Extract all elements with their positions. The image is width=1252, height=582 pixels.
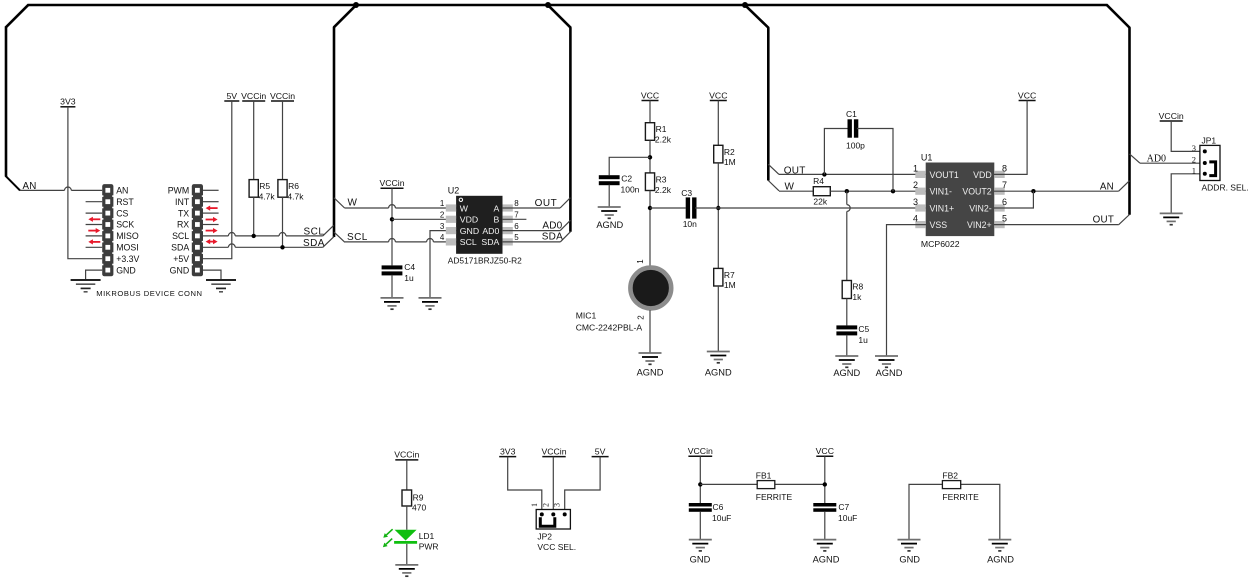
wire harness drop 2 vertical [569,28,572,232]
wire R3 to mic node [649,191,651,267]
label C4 [404,262,415,283]
power VCC (R2) [709,90,727,100]
power VCCin (FB1) [688,446,713,456]
wire R1 to node [649,140,651,173]
net label W (into AD5171) [348,198,358,209]
svg-text:VCC SEL.: VCC SEL. [537,542,576,552]
svg-text:2: 2 [637,315,646,320]
svg-text:LD1: LD1 [419,531,435,541]
U1 internal right labels [962,170,991,230]
power 5V (JP2) [592,446,609,456]
svg-text:1u: 1u [404,273,414,283]
wire VOUT2 to VIN2- [994,191,1033,208]
svg-text:MIKROBUS DEVICE CONN: MIKROBUS DEVICE CONN [96,289,202,298]
svg-text:4: 4 [913,214,918,224]
svg-text:7: 7 [1002,180,1007,190]
svg-text:RX: RX [177,220,189,230]
wire SCL net [203,232,323,235]
wire stub INT [203,201,219,203]
wire SDA diagonal to harness [323,237,334,248]
svg-text:MISO: MISO [116,231,139,241]
wire harness drop 1 diagonal [334,5,357,28]
ground C4 [381,298,404,309]
svg-text:CMC-2242PBL-A: CMC-2242PBL-A [576,323,643,333]
ground right header [206,280,236,292]
wire R4 to U1 pin2 [830,190,926,192]
arrow SCL out [206,228,218,233]
svg-text:470: 470 [412,503,426,513]
node VOUT2 junction [1031,189,1035,193]
svg-text:5V: 5V [226,91,237,101]
svg-text:C1: C1 [846,109,857,119]
wire VCCin to JP2 pin2 [552,457,554,510]
net label AD0 [1147,153,1166,164]
wire W tap diagonal (MCP) [768,181,779,191]
svg-text:1: 1 [913,163,918,173]
svg-text:VIN2+: VIN2+ [967,220,992,230]
svg-text:W: W [348,198,358,209]
svg-text:VOUT2: VOUT2 [962,187,991,197]
wire stub RST [86,201,103,203]
power 3V3 (JP2) [499,446,516,456]
ground C6 [689,540,712,551]
ground JP1 [1160,213,1183,224]
wire FB1 line [700,483,825,485]
svg-text:22k: 22k [813,196,827,206]
svg-text:CS: CS [116,208,128,218]
wire VCC to R1 [649,101,651,123]
connector mikrobus left header [102,184,114,276]
svg-text:VCC: VCC [641,90,659,100]
svg-text:C2: C2 [621,173,632,183]
resistor R1 [645,123,654,141]
svg-text:2: 2 [541,503,550,507]
wire R7 to ground [717,286,719,352]
power VCC (FB1) [816,446,834,456]
label R3 [655,174,672,195]
svg-text:100p: 100p [846,140,865,150]
wire mic node to C3 [650,207,686,209]
arrow MISO out [88,228,100,233]
svg-text:2.2k: 2.2k [655,185,672,195]
net label OUT (right) [1093,215,1115,226]
wire OUT tap diagonal (MCP) [768,164,779,174]
power 5V [224,91,239,101]
wire harness drop 3 vertical [767,28,770,181]
svg-text:1u: 1u [858,335,868,345]
wire stub MISO [86,235,103,237]
wire harness drop 1 vertical [333,27,336,237]
capacitor C5 [836,325,857,335]
svg-text:GND: GND [116,265,136,275]
svg-text:1M: 1M [724,157,736,167]
label C3 [681,188,697,229]
ferrite FB2 body [942,481,960,489]
wire stub SCK [86,224,103,226]
wire U1 VSS to ground [887,225,927,356]
svg-text:VCCin: VCCin [241,91,266,101]
svg-text:6: 6 [514,222,519,231]
svg-text:C5: C5 [858,324,869,334]
arrow RX out [206,217,218,222]
svg-text:10n: 10n [683,219,697,229]
svg-text:SDA: SDA [303,238,325,249]
label R7 [724,270,736,290]
wire FB2 left [909,484,1000,539]
label AGND (VSS) [876,368,903,378]
wire R5 to SCL [253,197,255,236]
svg-text:R7: R7 [724,270,735,280]
wire VCC down (C7) [824,456,826,503]
svg-text:VIN1-: VIN1- [930,187,953,197]
arrow TX in [206,206,218,211]
resistor R7 [714,268,723,286]
label FERRITE (FB2) [942,492,979,502]
svg-text:AGND: AGND [987,555,1014,565]
capacitor C7 [813,503,836,512]
svg-text:3V3: 3V3 [60,97,76,107]
svg-text:3: 3 [440,222,445,231]
wire U2 pin8 OUT [502,207,560,209]
label AD5171BRJZ50-R2 [448,255,522,265]
wire VDD to U2 pin2 [392,218,457,220]
svg-text:3: 3 [1192,143,1196,153]
svg-text:GND: GND [690,555,711,565]
svg-text:GND: GND [460,226,479,236]
label LD1 PWR [419,531,439,552]
label MCP6022 [921,239,960,249]
label R6 [287,181,304,201]
power VCCin (U2) [379,178,404,188]
svg-text:3V3: 3V3 [500,446,516,456]
node mic-C3 junction [648,206,652,210]
svg-text:R4: R4 [813,176,824,186]
power VCCin (R5) [241,91,266,101]
resistor R6 [278,180,287,198]
wire JP1 pin1 to ground [1171,174,1200,214]
svg-text:AD0: AD0 [542,221,562,232]
svg-text:C4: C4 [404,262,415,272]
U1 internal left labels [930,170,959,230]
svg-text:MCP6022: MCP6022 [921,239,960,249]
wire harness drop 3 diagonal [744,5,768,28]
svg-text:VCCin: VCCin [270,91,295,101]
wire stub PWM [203,189,219,191]
svg-text:2.2k: 2.2k [655,135,672,145]
svg-text:R3: R3 [656,174,667,184]
power VCCin (R6) [270,91,295,101]
net label W (MCP in) [785,182,795,193]
svg-text:AGND: AGND [596,220,623,230]
svg-text:SDA: SDA [481,237,499,247]
JP1 pin dots [1203,149,1207,175]
capacitor C1 [848,119,859,137]
label AGND (MIC1) [637,368,664,378]
wire 3V3 to +3.3V pin [68,107,102,259]
svg-text:VCCin: VCCin [379,178,404,188]
wire SCL diagonal to harness [323,225,334,236]
svg-text:AGND: AGND [637,368,664,378]
wire W net to U2 pin1 [345,205,457,208]
wire U2 GND pin to ground [430,231,457,298]
capacitor C6 [689,503,712,512]
wire LED to ground [406,544,408,565]
labels mikrobus right header pins [168,186,190,276]
wire SDA diagonal to harness (AD5171) [560,232,570,242]
wire C1 right leg [857,129,893,192]
svg-text:AGND: AGND [705,368,732,378]
capacitor C2 [599,175,620,185]
wire W tap diagonal [334,198,345,208]
wire VCCin to R5 [253,101,255,180]
node SCL-R5 junction [252,234,256,238]
svg-text:VCCin: VCCin [688,446,713,456]
svg-text:RST: RST [116,197,134,207]
net label SDA (AD5171) [542,232,563,243]
svg-text:FB2: FB2 [942,471,958,481]
label AGND (FB2) [987,555,1014,565]
wire OUT diagonal to harness (right) [1119,215,1130,225]
svg-text:C6: C6 [713,502,724,512]
wire SDA net [203,244,323,247]
svg-text:VCCin: VCCin [1159,111,1184,121]
net label AD0 (AD5171) [542,221,562,232]
wire 5V to +5V pin [202,101,232,259]
node harness junction 2 [545,2,551,8]
ground U2 [419,298,442,309]
label AGND (R7) [705,368,732,378]
wire VCCin down (FB1) [699,456,701,503]
svg-text:SCL: SCL [460,237,477,247]
svg-text:10uF: 10uF [838,513,857,523]
label FB2 [942,471,958,481]
wire VCCin to R6 [282,101,284,180]
node harness junction 1 [353,2,359,8]
label MIC1 [576,311,643,333]
svg-text:2: 2 [440,211,445,220]
op-amp U1 MCP6022 body [915,163,1004,237]
wire SCL net to U2 pin4 [345,239,457,242]
wire U2 pin6 AD0 [502,230,560,232]
svg-text:VDD: VDD [460,215,478,225]
wire VCC to R2 [717,101,719,146]
power VCCin (JP2) [541,446,566,456]
svg-text:JP2: JP2 [537,532,552,542]
svg-text:AD0: AD0 [482,226,499,236]
label U2 [448,186,460,196]
ground MIC1 [639,353,662,364]
wire C5 to ground [846,335,848,356]
svg-text:R6: R6 [288,181,299,191]
label JP1 [1202,135,1217,145]
label MIKROBUS DEVICE CONN [96,289,202,298]
svg-text:OUT: OUT [1093,215,1115,226]
label R4 [813,176,828,206]
wire VCCin to JP1 pin3 [1171,121,1200,151]
wire VCC to U1 VDD [994,101,1027,175]
svg-text:1: 1 [440,199,445,208]
svg-text:1: 1 [530,503,539,507]
svg-text:MOSI: MOSI [116,243,138,253]
power VCC (U1) [1018,90,1036,100]
wire U2 pin5 SDA [502,241,560,243]
power VCC (R1) [641,90,659,100]
label GND (FB2) [899,555,920,565]
svg-text:AN: AN [23,181,37,192]
U2 left pin numbers [440,199,445,242]
connector mikrobus right header [191,184,203,276]
wire harness left bottom diagonal [6,176,20,191]
U2 internal right labels [481,203,499,247]
wire stub MOSI [86,246,103,248]
U2 internal left labels [460,203,479,247]
wire C3 to U1 VIN1+ [695,207,926,209]
wire OUT diagonal to harness [560,198,570,208]
svg-text:+3.3V: +3.3V [116,254,139,264]
wire stub RX [203,224,219,226]
svg-text:OUT: OUT [535,198,558,209]
wire AD0 to JP1 pin2 [1140,162,1200,164]
net label OUT (MCP in) [784,165,806,176]
node C7 junction [823,482,827,486]
svg-text:10uF: 10uF [712,513,731,523]
svg-text:1k: 1k [852,292,862,302]
arrow SDA bidir [206,239,218,244]
wire stub TX [203,212,219,214]
svg-text:FERRITE: FERRITE [756,492,793,502]
net label SDA (mikrobus) [303,238,325,249]
JP1 pin numbers [1192,143,1196,176]
arrow SCK in [88,217,100,222]
wire VCCin down to C4 [391,188,393,265]
ground left header [71,280,101,292]
wire stub CS [86,212,103,214]
U2 pin1 marker [459,198,462,201]
wire 3V3 to JP2 pin1 [508,457,542,510]
label AGND (C5) [833,368,860,378]
svg-text:1M: 1M [724,280,736,290]
wire right header GND [203,270,221,280]
svg-text:2: 2 [1192,155,1196,165]
svg-text:MIC1: MIC1 [576,311,597,321]
svg-text:W: W [460,203,469,213]
svg-text:AN: AN [116,186,128,196]
svg-text:VCCin: VCCin [541,446,566,456]
U1 left pin numbers [913,163,918,223]
svg-text:7: 7 [514,211,519,220]
label C6 [712,502,731,523]
label GND (C6) [690,555,711,565]
svg-text:SDA: SDA [542,232,563,243]
svg-text:SCL: SCL [172,231,189,241]
wire harness top bus [28,4,1107,7]
label R5 [259,181,276,201]
svg-text:1: 1 [1192,166,1196,176]
svg-text:U1: U1 [921,152,933,162]
label JP2 [537,532,552,542]
svg-text:AGND: AGND [876,368,903,378]
label R2 [724,147,736,167]
label C2 [621,173,640,194]
JP2 jumper cap [540,517,555,526]
resistor R2 [714,145,723,163]
resistor R5 [249,180,258,198]
wire harness top-right corner [1106,5,1130,28]
wire OUT net to U1 pin1 [779,173,926,175]
wire AD0 tap diagonal [1130,154,1141,163]
ground U1 VSS [875,356,898,367]
power 3V3 [60,97,76,107]
svg-text:VDD: VDD [973,170,992,180]
op-amp U2 AD5171 body [446,196,513,254]
svg-text:A: A [494,203,500,213]
svg-text:JP1: JP1 [1202,135,1217,145]
wire W to R4 [779,190,813,192]
wire node to C2 [609,157,650,175]
node C1 right junction [891,189,895,193]
arrow MOSI in [88,239,100,244]
net label SCL (mikrobus) [304,226,325,237]
wire mic to ground [649,310,651,353]
U2 right pin numbers [514,199,519,242]
svg-text:R5: R5 [259,181,270,191]
wire U1 VOUT2 to AN [994,190,1119,192]
ground R7 [707,352,730,363]
svg-text:2: 2 [913,180,918,190]
svg-text:+5V: +5V [173,254,189,264]
ground FB2 right [988,540,1011,551]
resistor R4 [813,187,830,196]
wire 5V to JP2 pin3 [565,457,600,510]
ground LD1 [395,565,418,576]
svg-text:4: 4 [440,233,445,242]
node harness junction 3 [742,2,748,8]
label FB1 [756,471,772,481]
svg-text:ADDR. SEL.: ADDR. SEL. [1202,183,1249,193]
svg-text:U2: U2 [448,186,460,196]
svg-text:INT: INT [175,197,190,207]
resistor R9 [402,490,412,506]
LED LD1 [394,530,417,543]
net label SCL (AD5171) [347,232,368,243]
wire VCCin to R9 [406,460,408,490]
power VCCin (JP1) [1159,111,1184,121]
wire R8 to C5 [846,299,848,326]
node C6 junction [698,482,702,486]
wire U2 pin7 stub [502,218,526,220]
svg-text:VCC: VCC [816,446,834,456]
wire harness top-left corner [6,5,29,28]
MIC1 pin2 number [637,315,646,320]
label R9 [412,492,426,512]
wire C7 to ground [824,512,826,540]
JP2 pin numbers [530,503,562,507]
node R2-R7 junction [716,206,720,210]
wire C6 to ground [699,512,701,540]
ground C2 [598,207,621,218]
svg-text:8: 8 [514,199,519,208]
LED light arrows [383,529,393,547]
svg-text:AGND: AGND [833,368,860,378]
label AGND (C2) [596,220,623,230]
svg-text:GND: GND [170,265,190,275]
svg-text:TX: TX [178,208,189,218]
svg-text:VCC: VCC [709,90,727,100]
jumper JP1 body [1200,145,1220,180]
wire C1 left leg [824,129,847,175]
label VCC SEL. [537,542,576,552]
svg-text:1: 1 [636,259,645,264]
